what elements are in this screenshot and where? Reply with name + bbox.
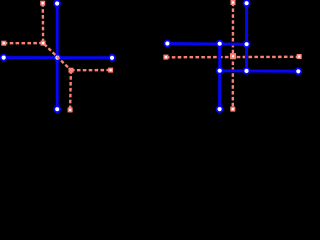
node upper mid blue circle (217, 41, 223, 47)
node left pink square (164, 55, 168, 59)
node bottom blue circle (217, 106, 223, 112)
node lower right corner blue circle (244, 68, 250, 74)
node top blue circle (244, 0, 250, 6)
wire blue horizontal edge (lower left corner to far right node) (220, 69, 299, 73)
node top pink square (231, 1, 235, 5)
node center blue circle (54, 55, 60, 61)
node bottom blue circle (54, 106, 60, 112)
node lower corner pink square (69, 68, 73, 72)
wire pink dashed diagonal edge (upper corner through blue center to lower corner) (43, 43, 71, 70)
wire pink dashed vertical edge (lower corner down to bottom square) (69, 70, 72, 110)
wire pink dashed horizontal edge (left square to upper corner) (4, 42, 43, 45)
node far right blue circle (295, 68, 301, 74)
wire blue horizontal edge (left node to right node) (4, 56, 112, 59)
node right blue circle (109, 55, 115, 61)
wire pink dashed vertical edge (top square to bottom square) (232, 3, 235, 110)
node far left blue circle (164, 41, 170, 47)
wire pink dashed horizontal edge (left square to right square) (166, 56, 299, 59)
wire blue horizontal edge (far left node to upper right corner) (167, 42, 246, 46)
node center pink square (231, 54, 235, 58)
node top blue circle (54, 1, 60, 7)
wire blue vertical edge (top node to bottom node) (56, 4, 59, 110)
node bottom pink square (68, 108, 72, 112)
wire pink dashed horizontal edge (lower corner to right square) (71, 69, 111, 71)
wire pink dashed vertical edge (top square down to upper corner) (42, 3, 45, 43)
node right pink square (109, 68, 113, 72)
node bottom pink square (231, 107, 235, 111)
node left blue circle (1, 55, 7, 61)
wire blue vertical edge (upper left corner down to bottom node) (218, 44, 221, 109)
node right pink square (297, 55, 301, 59)
node upper right blue circle (244, 41, 250, 47)
wire blue vertical edge (top node down to lower right corner node) (245, 3, 248, 71)
node top pink square (41, 1, 45, 5)
node upper corner pink square (41, 41, 45, 45)
node left pink square (2, 41, 6, 45)
node lower mid blue circle (217, 68, 223, 74)
